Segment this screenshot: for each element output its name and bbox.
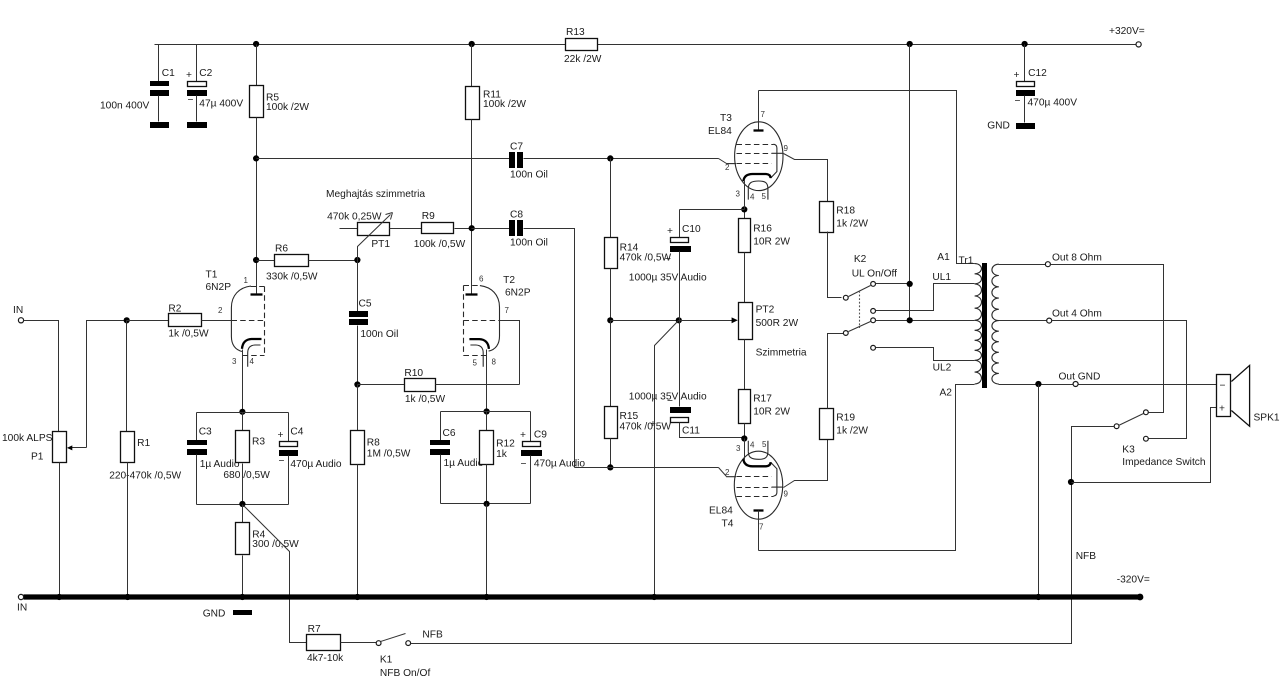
wire net 2 bottom to rail: [486, 504, 488, 598]
svg-text:C6: C6: [443, 428, 456, 439]
svg-text:1k /2W: 1k /2W: [836, 219, 868, 230]
capacitor C8: [509, 210, 548, 249]
node T1 cathode network top: [239, 409, 245, 415]
node C7/R14: [607, 155, 613, 161]
svg-text:6: 6: [479, 275, 484, 284]
svg-text:1M /0,5W: 1M /0,5W: [367, 449, 411, 460]
svg-text:A1: A1: [937, 252, 950, 263]
svg-text:6N2P: 6N2P: [206, 282, 232, 293]
svg-text:Out GND: Out GND: [1059, 372, 1101, 383]
svg-text:100n Oil: 100n Oil: [510, 170, 548, 181]
svg-text:330k /0,5W: 330k /0,5W: [266, 272, 318, 283]
svg-text:P1: P1: [31, 452, 44, 463]
svg-text:9: 9: [784, 144, 789, 153]
wire node to R2: [127, 320, 169, 322]
svg-text:4: 4: [250, 357, 255, 366]
node rail R4: [239, 594, 245, 600]
resistor R16: [739, 210, 791, 303]
svg-text:C3: C3: [199, 427, 212, 438]
capacitor C4: [278, 413, 342, 505]
svg-text:R13: R13: [566, 27, 585, 38]
wire center tap B+: [876, 320, 975, 322]
node rail-C1 junction / wire to C1: [158, 45, 160, 82]
wire T3 anode to transformer A1: [759, 91, 975, 264]
svg-text:R17: R17: [753, 394, 772, 405]
svg-text:3: 3: [736, 444, 741, 453]
wire 4 Ohm to K3 throw: [1052, 321, 1187, 439]
svg-text:R12: R12: [496, 439, 515, 450]
svg-text:R7: R7: [308, 624, 321, 635]
node Out GND to rail: [1035, 381, 1041, 387]
capacitor C12: [1014, 68, 1078, 123]
svg-text:+: +: [1014, 70, 1020, 81]
svg-text:1µ Audio: 1µ Audio: [200, 459, 240, 470]
svg-text:1k: 1k: [496, 449, 508, 460]
svg-text:Out 8 Ohm: Out 8 Ohm: [1052, 253, 1102, 264]
node cathode net 2 bottom: [484, 501, 490, 507]
wire UL1 tap: [876, 284, 975, 311]
node cathode net bottom / R4: [239, 501, 245, 507]
svg-text:8: 8: [492, 358, 497, 367]
switch K3 Impedance: [1114, 410, 1205, 468]
wire rail to R11: [471, 45, 473, 87]
pentode T3 EL84: [708, 91, 789, 210]
svg-text:R10: R10: [404, 368, 423, 379]
wire +320V top rail right segment: [598, 44, 1137, 46]
svg-text:PT1: PT1: [371, 239, 390, 250]
svg-text:1µ Audio: 1µ Audio: [444, 458, 484, 469]
svg-text:GND: GND: [987, 120, 1010, 131]
wire R1 bottom to rail: [127, 463, 129, 598]
svg-text:4: 4: [750, 441, 755, 450]
svg-text:22k /2W: 22k /2W: [564, 54, 602, 65]
wire C8 to T4 grid line: [524, 229, 575, 468]
wire K2 throw1 to B+: [876, 283, 910, 285]
svg-text:R18: R18: [836, 206, 855, 217]
svg-text:+: +: [1219, 404, 1225, 415]
svg-text:C10: C10: [682, 224, 701, 235]
wire +320V top rail left segment: [155, 44, 566, 46]
node C5/R10/R8: [354, 381, 360, 387]
wire Out 8 Ohm: [999, 264, 1046, 266]
svg-text:C2: C2: [199, 68, 212, 79]
resistor R4: [236, 505, 300, 598]
svg-text:300 /0,5W: 300 /0,5W: [252, 539, 299, 550]
svg-text:Impedance Switch: Impedance Switch: [1122, 457, 1205, 468]
wire R5 to T1 plate node: [256, 118, 258, 261]
svg-text:K1: K1: [380, 655, 393, 666]
node rail-C12: [1022, 41, 1028, 47]
svg-text:470k 0,25W: 470k 0,25W: [327, 212, 382, 223]
svg-text:+320V=: +320V=: [1109, 26, 1145, 37]
svg-text:R19: R19: [836, 413, 855, 424]
svg-text:−: −: [1015, 96, 1021, 107]
wire mid node to C10/C11: [611, 320, 679, 322]
svg-text:−: −: [521, 459, 527, 470]
svg-text:7: 7: [505, 306, 510, 315]
node rail-R11: [469, 41, 475, 47]
capacitor C11: [629, 321, 745, 438]
resistor R7: [307, 624, 377, 664]
svg-text:R2: R2: [168, 304, 181, 315]
svg-text:220-470k /0,5W: 220-470k /0,5W: [109, 471, 181, 482]
svg-text:−: −: [188, 95, 194, 106]
resistor R17: [739, 340, 791, 439]
svg-text:+: +: [520, 430, 526, 441]
svg-text:EL84: EL84: [708, 126, 732, 137]
svg-text:5: 5: [473, 359, 478, 368]
transformer Tr1 core: [982, 263, 987, 388]
ground GND main: [203, 609, 252, 620]
svg-text:T1: T1: [206, 270, 218, 281]
svg-text:9: 9: [784, 490, 789, 499]
node B+/K2: [907, 281, 913, 287]
svg-text:1000µ 35V Audio: 1000µ 35V Audio: [629, 392, 707, 403]
svg-text:K3: K3: [1122, 445, 1135, 456]
svg-text:1k /2W: 1k /2W: [836, 426, 868, 437]
svg-text:470k /0,5W: 470k /0,5W: [620, 253, 672, 264]
capacitor C6: [430, 412, 484, 504]
wire T4 grid line: [575, 467, 719, 469]
transformer Tr1 primary winding: [959, 256, 982, 385]
svg-text:T2: T2: [503, 275, 515, 286]
wire R2 to T1 grid: [202, 320, 232, 322]
svg-text:-320V=: -320V=: [1117, 575, 1150, 586]
potentiometer PT1 470k: [327, 212, 392, 261]
svg-text:EL84: EL84: [709, 506, 733, 517]
potentiometer PT2: [739, 303, 807, 359]
svg-text:C5: C5: [359, 299, 372, 310]
svg-text:2: 2: [218, 306, 223, 315]
svg-text:470µ Audio: 470µ Audio: [290, 459, 342, 470]
wire mid node to bottom rail: [655, 321, 679, 598]
svg-text:−: −: [665, 254, 671, 265]
wire T1 cathode to C3/R3/C4 node: [242, 350, 244, 412]
svg-text:IN: IN: [13, 305, 23, 316]
svg-text:100n 400V: 100n 400V: [100, 100, 149, 111]
svg-text:1000µ 35V Audio: 1000µ 35V Audio: [629, 273, 707, 284]
svg-text:R3: R3: [252, 437, 265, 448]
node R14/R15/PT2 wiper: [607, 317, 613, 323]
triode T2 6N2P: [464, 275, 531, 368]
svg-text:Tr1: Tr1: [959, 256, 974, 267]
capacitor C5: [349, 261, 398, 385]
wire B+ vertical to K2/center-tap: [909, 45, 911, 321]
svg-text:T3: T3: [720, 113, 732, 124]
wire C7 coupling line: [257, 158, 510, 160]
svg-text:Out 4 Ohm: Out 4 Ohm: [1052, 309, 1102, 320]
ground C1: [150, 122, 169, 128]
svg-text:R8: R8: [367, 438, 380, 449]
capacitor C7: [509, 142, 548, 181]
svg-text:T4: T4: [722, 519, 734, 530]
svg-text:100n Oil: 100n Oil: [360, 329, 398, 340]
svg-text:R16: R16: [753, 224, 772, 235]
capacitor C3: [187, 413, 240, 505]
wire T3 g2 to R18: [784, 154, 828, 202]
wire NFB diagonal to cathode node: [244, 506, 307, 643]
svg-text:R1: R1: [137, 438, 150, 449]
terminal +320V: [1109, 26, 1145, 47]
potentiometer P1: [2, 432, 87, 463]
terminal Out GND: [1059, 372, 1101, 387]
svg-text:47µ 400V: 47µ 400V: [199, 98, 243, 109]
svg-text:C8: C8: [510, 210, 523, 221]
node rail-R5: [253, 41, 259, 47]
resistor R13: [564, 27, 602, 65]
svg-text:−: −: [1220, 381, 1226, 392]
node input/R1/R2: [124, 317, 130, 323]
node rail R1: [125, 594, 131, 600]
svg-text:10R 2W: 10R 2W: [753, 407, 790, 418]
wire rail to R5: [256, 45, 258, 86]
transformer Tr1 secondary winding: [992, 264, 999, 384]
switch K1 NFB On/Off: [376, 630, 443, 680]
capacitor C1: [100, 68, 175, 122]
svg-text:4k7-10k: 4k7-10k: [307, 653, 344, 664]
svg-text:3: 3: [736, 190, 741, 199]
node T4 cathode/R17/C11: [741, 435, 747, 441]
svg-text:500R 2W: 500R 2W: [756, 318, 799, 329]
svg-text:100k ALPS: 100k ALPS: [2, 433, 53, 444]
node NFB/speaker plus: [1068, 479, 1074, 485]
resistor R5: [250, 86, 310, 118]
capacitor C2: [186, 68, 243, 122]
node C10/C11 mid: [676, 317, 682, 323]
svg-text:SPK1: SPK1: [1254, 413, 1280, 424]
svg-text:UL On/Off: UL On/Off: [852, 269, 897, 280]
resistor R3: [223, 413, 270, 505]
ground C2: [187, 122, 207, 128]
wire PT2 wiper arrow: [679, 317, 738, 323]
terminal Out 8 Ohm: [1045, 253, 1101, 267]
svg-text:2: 2: [725, 163, 730, 172]
ground C12: [987, 120, 1035, 131]
svg-text:+: +: [667, 226, 673, 237]
svg-text:GND: GND: [203, 609, 226, 620]
wire 8 Ohm to K3 throw: [1051, 265, 1164, 413]
svg-text:4: 4: [750, 193, 755, 202]
svg-text:UL2: UL2: [933, 363, 952, 374]
terminal IN (top input): [13, 305, 24, 323]
svg-text:Szimmetria: Szimmetria: [756, 348, 807, 359]
svg-text:7: 7: [759, 523, 764, 532]
node rail mid-node ground: [651, 594, 657, 600]
node rail Out GND: [1035, 594, 1041, 600]
node rail P1: [56, 594, 62, 600]
wire T4 anode to transformer A2: [759, 385, 975, 551]
svg-text:C7: C7: [510, 142, 523, 153]
svg-text:IN: IN: [17, 603, 27, 614]
svg-text:1: 1: [244, 276, 249, 285]
resistor R10: [358, 368, 520, 405]
svg-text:6N2P: 6N2P: [505, 288, 531, 299]
node rail cathode net 2: [484, 594, 490, 600]
wire node to speaker plus: [1072, 408, 1217, 483]
wire T4 grid jog: [719, 468, 727, 477]
svg-text:R6: R6: [275, 244, 288, 255]
node R15/T4 grid: [607, 464, 613, 470]
wire bottom rail -320V (thick): [24, 594, 1141, 599]
svg-text:A2: A2: [940, 388, 953, 399]
wire Out GND to speaker minus: [1079, 384, 1217, 386]
wire C7 to R14/T3 grid: [524, 158, 719, 160]
terminal IN bottom: [17, 594, 27, 613]
wire NFB run to output stage: [411, 483, 1072, 644]
svg-text:C9: C9: [534, 430, 547, 441]
resistor R18: [820, 202, 869, 298]
svg-text:Meghajtás szimmetria: Meghajtás szimmetria: [326, 189, 425, 200]
node T1 plate / R6: [253, 257, 259, 263]
resistor R9: [390, 211, 472, 250]
svg-text:100k /2W: 100k /2W: [266, 102, 309, 113]
wire rail to C2: [196, 45, 198, 82]
svg-text:K2: K2: [854, 254, 867, 265]
svg-text:100k /0,5W: 100k /0,5W: [414, 239, 466, 250]
svg-text:R9: R9: [422, 211, 435, 222]
resistor R12: [480, 412, 516, 504]
svg-text:C1: C1: [162, 68, 175, 79]
node rail R8: [354, 594, 360, 600]
svg-text:+: +: [650, 419, 656, 430]
node R6/PT1/C5: [354, 257, 360, 263]
node R9/R11/C8/T2 plate: [469, 225, 475, 231]
node R5/C7 line: [253, 155, 259, 161]
svg-text:1k /0,5W: 1k /0,5W: [405, 394, 446, 405]
svg-text:680 /0,5W: 680 /0,5W: [223, 470, 270, 481]
resistor R2: [168, 304, 209, 340]
svg-text:3: 3: [232, 357, 237, 366]
wire K3 common to NFB node: [1072, 427, 1115, 483]
svg-text:5: 5: [762, 192, 767, 201]
wire node to R1: [126, 321, 128, 432]
svg-text:C4: C4: [290, 427, 303, 438]
wire UL2 tap: [876, 348, 975, 361]
svg-text:100k /2W: 100k /2W: [483, 99, 526, 110]
node T2 cathode network top: [484, 408, 490, 414]
wire R11 to T2 plate node: [471, 120, 473, 294]
wire T2 grid to R10: [500, 321, 520, 385]
switch K2 UL On/Off: [843, 254, 897, 350]
wire T3 grid jog: [719, 159, 727, 164]
svg-text:10R 2W: 10R 2W: [753, 237, 790, 248]
wire T4 g2 to R19: [784, 440, 828, 488]
resistor R15: [605, 321, 672, 468]
svg-text:C11: C11: [682, 426, 700, 437]
resistor R1: [109, 432, 181, 482]
node rail end: [1137, 594, 1144, 601]
capacitor C9: [520, 412, 585, 504]
svg-text:PT2: PT2: [756, 305, 775, 316]
svg-text:NFB On/Of: NFB On/Of: [380, 668, 431, 679]
node T3 cathode/R16/C10: [741, 206, 747, 212]
svg-text:NFB: NFB: [1076, 551, 1097, 562]
svg-text:+: +: [278, 430, 284, 441]
resistor R11: [466, 87, 527, 120]
resistor R6: [257, 244, 358, 283]
svg-text:1k /0,5W: 1k /0,5W: [168, 329, 209, 340]
svg-text:+: +: [186, 70, 192, 81]
node B+/center tap: [907, 317, 913, 323]
wire rail to C12: [1024, 45, 1026, 82]
wire P1 wiper up to R2 node: [87, 321, 127, 448]
svg-text:5: 5: [762, 440, 767, 449]
wire Out GND down to rail: [1038, 385, 1040, 596]
svg-text:R15: R15: [620, 411, 639, 422]
svg-text:470µ 400V: 470µ 400V: [1028, 98, 1078, 109]
triode T1 6N2P: [206, 261, 265, 367]
capacitor C10: [629, 210, 707, 321]
speaker SPK1: [1217, 365, 1280, 426]
wire IN to P1 top: [24, 321, 59, 432]
svg-text:NFB: NFB: [422, 630, 443, 641]
svg-text:7: 7: [761, 110, 766, 119]
wire cathode net top: [197, 412, 289, 414]
wire cathode net 2 bottom: [441, 503, 531, 505]
pentode T4 EL84: [709, 439, 789, 551]
svg-text:C12: C12: [1028, 68, 1047, 79]
svg-text:−: −: [279, 456, 285, 467]
wire T3 cathode node to C10: [680, 209, 745, 211]
wire C8 coupling line: [472, 228, 510, 230]
wire T2 cathode to C6/R12/C9 node: [486, 350, 488, 412]
resistor R14: [605, 159, 672, 321]
svg-text:UL1: UL1: [932, 272, 951, 283]
wire cathode net 2 top: [441, 411, 531, 413]
node rail-B+ drop: [907, 41, 913, 47]
wire Out GND line: [999, 384, 1074, 386]
wire cathode net bottom: [197, 504, 289, 506]
resistor R19: [820, 334, 869, 440]
wire P1 bottom to rail: [59, 463, 61, 598]
wire Out 4 Ohm: [999, 320, 1047, 322]
svg-text:100n Oil: 100n Oil: [510, 238, 548, 249]
resistor R8: [351, 385, 411, 598]
terminal Out 4 Ohm: [1047, 309, 1102, 324]
svg-text:470k /0,5W: 470k /0,5W: [620, 422, 672, 433]
